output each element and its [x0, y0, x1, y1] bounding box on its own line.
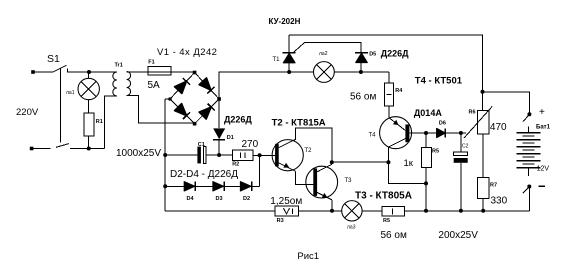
thyristor T1: [283, 35, 296, 72]
wire 220V bottom to switch: [32, 148, 51, 150]
wire La3 to R8: [362, 210, 382, 212]
node C2 rail junction: [459, 209, 463, 213]
svg-text:C1: C1: [198, 142, 205, 148]
wire La2 to R4 corner: [334, 71, 389, 73]
node bridge left vertex: [168, 97, 172, 101]
svg-text:Д226Д: Д226Д: [224, 115, 252, 125]
svg-text:F1: F1: [148, 60, 154, 66]
wire switch B to primary return: [70, 148, 105, 150]
wire DC minus vertical: [164, 99, 166, 211]
wire right vertex down to D1: [218, 99, 220, 128]
svg-text:R4: R4: [395, 88, 403, 94]
transistor T3: [306, 164, 338, 200]
node D5 anode junction: [359, 70, 363, 74]
wire 220V top to switch: [34, 71, 53, 73]
wire R2 to T2 base: [253, 154, 275, 156]
svg-text:+: +: [539, 107, 545, 118]
node R5 bottom junction: [424, 181, 428, 185]
svg-text:220V: 220V: [16, 107, 39, 118]
node bridge top vertex: [193, 71, 197, 75]
wire T2 collector: [296, 128, 332, 162]
wire secondary top to fuse and bridge: [127, 71, 195, 73]
wire collector rail: [332, 161, 389, 163]
wire top rail: [289, 35, 482, 111]
svg-text:V1 - 4х Д242: V1 - 4х Д242: [157, 47, 217, 58]
terminal battery minus clamp: [523, 185, 531, 211]
wire junction down to diode row: [259, 155, 261, 186]
switch S1 pole A contact: [66, 68, 68, 72]
wire D6 to wiper node: [445, 132, 466, 134]
svg-text:200x25V: 200x25V: [438, 230, 478, 241]
svg-text:С2: С2: [462, 144, 469, 150]
switch S1 pole A arm: [53, 65, 67, 72]
bridge diode bottom-left: [175, 104, 190, 120]
svg-text:Т4: Т4: [369, 133, 377, 139]
wire battery plus branch: [483, 92, 530, 113]
svg-text:1к: 1к: [404, 158, 414, 169]
wire R6 to R7: [482, 134, 484, 177]
transistor T4: [380, 117, 412, 149]
wire secondary bottom to bridge AC2: [127, 96, 195, 123]
resistor R4: [384, 83, 393, 106]
wire T4 base to D6: [409, 132, 436, 134]
svg-text:R3: R3: [277, 218, 284, 224]
bridge diode bottom-right: [199, 104, 215, 120]
resistor R7: [478, 177, 490, 198]
svg-text:R5: R5: [432, 149, 439, 155]
transistor T2: [272, 139, 303, 171]
diode D6: [437, 128, 446, 137]
svg-text:330: 330: [491, 195, 508, 206]
capacitor C2: [454, 133, 468, 211]
lamp La1: [78, 72, 99, 100]
node collector rail junction: [386, 160, 390, 164]
svg-text:1,25ом: 1,25ом: [270, 196, 302, 207]
svg-text:D6: D6: [439, 121, 446, 127]
svg-text:Т2: Т2: [305, 148, 313, 154]
diode D5: [355, 53, 368, 72]
resistor R1: [84, 113, 94, 136]
switch S1 pole B arm: [56, 144, 69, 148]
lamp La3: [342, 201, 362, 221]
svg-text:ла3: ла3: [347, 225, 356, 231]
wire R1 to bottom: [88, 136, 90, 148]
wire to R4: [388, 72, 390, 83]
wire primary return vertical: [105, 96, 117, 149]
svg-text:12V: 12V: [537, 166, 550, 173]
wire R4 to T4 emitter: [388, 106, 390, 117]
node bridge bottom vertex: [193, 122, 197, 126]
svg-text:ла2: ла2: [319, 51, 328, 57]
resistor R3: [275, 206, 299, 216]
node C1 right junction: [217, 153, 221, 157]
node T3 collector junction: [330, 160, 334, 164]
bridge diode top-left: [175, 78, 191, 94]
resistor R8: [382, 206, 404, 216]
label minus: [539, 185, 546, 187]
bridge rectifier V1 frame: [170, 73, 219, 124]
svg-text:270: 270: [242, 139, 259, 150]
svg-text:5A: 5A: [148, 80, 161, 91]
node R6 top junction: [481, 90, 485, 94]
transformer Tr1 primary winding: [113, 72, 117, 96]
node T3 emitter junction: [330, 209, 334, 213]
node C2 top junction: [459, 131, 463, 135]
wire bottom rail right: [405, 210, 530, 212]
node R5 rail junction: [424, 209, 428, 213]
diode D4: [184, 182, 195, 191]
svg-text:Т3: Т3: [345, 178, 353, 184]
diode D1: [213, 128, 225, 139]
node lamp tap junction: [87, 70, 91, 74]
wire R7 to rail: [482, 199, 484, 211]
svg-text:D1: D1: [227, 135, 234, 141]
lamp La2: [314, 62, 335, 83]
svg-text:Д014А: Д014А: [414, 108, 442, 118]
svg-text:56 ом: 56 ом: [350, 92, 376, 103]
wire C1 to R2: [206, 154, 233, 156]
svg-text:D5: D5: [369, 51, 376, 57]
wire bridge right vertex riser: [219, 72, 289, 99]
wire T2 emitter to T3 base: [296, 171, 314, 184]
node diode row left junction: [163, 184, 167, 188]
svg-text:D3: D3: [216, 196, 223, 202]
svg-text:Tr1: Tr1: [115, 63, 123, 69]
wire R3 to La3: [299, 210, 342, 212]
wire lamp to R1: [88, 100, 90, 113]
wire to C1: [165, 154, 197, 156]
svg-text:1000x25V: 1000x25V: [116, 148, 161, 159]
svg-text:Т2 - КТ815А: Т2 - КТ815А: [272, 117, 326, 128]
wire diode row: [165, 185, 259, 187]
bridge diode top-right: [199, 78, 215, 94]
rheostat R6: [464, 106, 492, 138]
svg-text:R6: R6: [469, 110, 476, 116]
svg-text:R2: R2: [232, 162, 239, 168]
svg-text:Д226Д: Д226Д: [381, 49, 409, 59]
node R2 right junction: [258, 153, 262, 157]
svg-text:D2: D2: [243, 196, 250, 202]
svg-text:Бат1: Бат1: [536, 125, 551, 131]
svg-text:470: 470: [490, 122, 507, 133]
svg-text:Т4 - КТ501: Т4 - КТ501: [415, 76, 463, 87]
svg-text:S1: S1: [47, 53, 60, 65]
switch S1 pole B terminal: [30, 147, 34, 151]
wire S1 link vertical: [59, 68, 61, 143]
diode D3: [213, 182, 224, 191]
node C1 left junction: [163, 153, 167, 157]
node R7 rail junction: [481, 209, 485, 213]
svg-text:R5: R5: [383, 218, 390, 224]
svg-text:КУ-202Н: КУ-202Н: [269, 17, 301, 26]
svg-text:D2-D4 - Д226Д: D2-D4 - Д226Д: [170, 169, 238, 180]
wire bridge left vertex stub: [165, 98, 170, 100]
wire main to lamp La2: [219, 71, 314, 73]
svg-text:R7: R7: [490, 183, 497, 189]
wire bottom rail left: [165, 210, 275, 212]
capacitor C1: [197, 147, 206, 164]
svg-text:Т3 - КТ805А: Т3 - КТ805А: [355, 190, 412, 201]
svg-text:Рис1: Рис1: [297, 251, 319, 262]
wire switch to transformer primary: [67, 71, 117, 73]
svg-text:ла1: ла1: [66, 90, 75, 96]
transformer Tr1 secondary winding: [127, 72, 131, 96]
node T4 base junction: [424, 131, 428, 135]
resistor R2: [232, 150, 253, 160]
wire thyristor gate: [294, 43, 362, 53]
svg-text:Т1: Т1: [273, 57, 281, 63]
node bridge right vertex: [217, 97, 221, 101]
switch S1 pole A terminal: [31, 70, 35, 74]
fuse F1: [148, 67, 171, 76]
terminal battery plus clamp: [523, 112, 531, 121]
svg-text:D4: D4: [187, 196, 195, 202]
svg-text:R1: R1: [96, 119, 103, 125]
wire T3 emitter down: [331, 200, 333, 211]
node thyristor anode junction: [287, 70, 291, 74]
diode D2: [240, 182, 251, 191]
resistor R5 1k: [422, 133, 432, 211]
battery Bat1: [517, 127, 541, 177]
wire D1 to C1 node: [218, 139, 220, 155]
wire T4 collector down: [388, 147, 426, 183]
node R1 bottom junction: [87, 147, 91, 151]
svg-text:56 ом: 56 ом: [381, 230, 407, 241]
